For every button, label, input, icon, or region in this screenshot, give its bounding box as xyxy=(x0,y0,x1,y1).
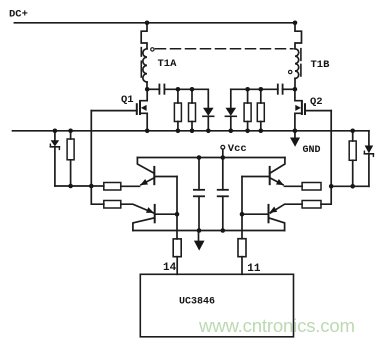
svg-text:11: 11 xyxy=(247,263,261,275)
svg-text:UC3846: UC3846 xyxy=(179,297,215,308)
svg-text:GND: GND xyxy=(303,145,321,156)
svg-text:Q1: Q1 xyxy=(121,94,134,106)
svg-text:Vcc: Vcc xyxy=(228,143,247,155)
svg-text:T1A: T1A xyxy=(158,58,178,70)
svg-text:DC+: DC+ xyxy=(9,8,28,20)
svg-text:Q2: Q2 xyxy=(310,96,323,108)
svg-text:14: 14 xyxy=(163,262,177,274)
svg-text:www.cntronics.com: www.cntronics.com xyxy=(198,315,355,336)
svg-text:T1B: T1B xyxy=(311,59,331,71)
